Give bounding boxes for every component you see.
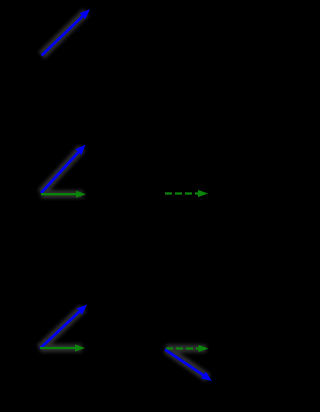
vector a (green solid arrow, middle-left diagram) [41,191,86,198]
compression halo around bottom-right diagram [166,349,208,379]
vector c (blue arrow, middle-left diagram) [41,145,86,194]
compression halo around top blue arrow [42,12,87,56]
vector a (green solid arrow, bottom-left diagram) [40,344,85,351]
vector c (blue arrow, top diagram) [42,9,91,56]
vector c (blue arrow, bottom-left diagram) [40,305,87,349]
compression halo around middle-right dashed arrow [165,190,206,198]
vector b (blue arrow pointing down-right, bottom-right diagram) [165,350,212,382]
compression halo around middle-left diagram [41,148,83,194]
vector a (green dashed arrow, bottom-right diagram) [166,345,209,352]
compression halo around bottom-left diagram [40,308,83,349]
vector a (green dashed arrow, middle-right diagram) [165,190,208,197]
